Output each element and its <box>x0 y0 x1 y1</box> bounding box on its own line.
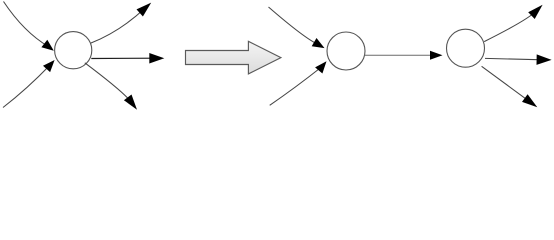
edge: in-edge G (from bottom-left into first right node) <box>270 61 327 105</box>
node: right graph second node (emits the out-edges) <box>447 29 485 67</box>
edge: out-edge I (second right node to right) <box>485 54 552 65</box>
edge: out-edge H (second right node to top-right) <box>484 5 542 42</box>
edge: in-edge F (from top-left into first right node) <box>269 7 325 48</box>
edge: out-edge J (second right node to bottom-right) <box>482 66 538 107</box>
edge: out-edge D (left node to right) <box>91 53 164 64</box>
edge: in-edge A (from top-left into left node) <box>4 2 54 51</box>
edge: out-edge C (left node to top-right) <box>91 3 151 43</box>
node: left graph center node <box>55 32 92 69</box>
edge: out-edge E (left node to bottom-right) <box>85 63 137 110</box>
node: right graph first node (receives the in-edges) <box>327 32 365 70</box>
edge: connector (first right node to second right node) <box>365 51 443 60</box>
edge: in-edge B (from bottom-left into left node) <box>3 60 55 108</box>
transform block arrow between the two graphs <box>186 41 281 74</box>
